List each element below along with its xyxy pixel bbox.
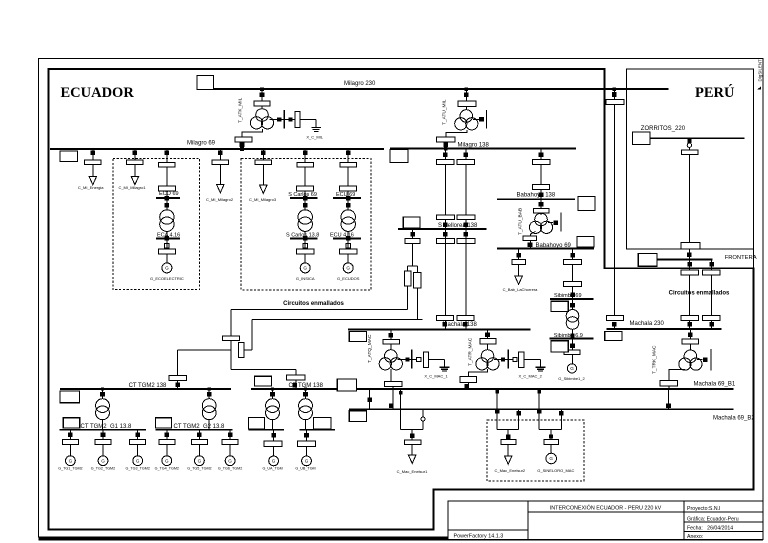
svg-text:Milagro 138: Milagro 138 [458, 142, 490, 148]
wire T_ATQ_MAC hv2 [390, 344, 392, 350]
wire T_TRK_MAC branch [697, 359, 703, 361]
wire T_ATQ_MAC lv [390, 369, 392, 382]
svg-text:G: G [165, 266, 169, 271]
breaker T_ATU_BAB hv [533, 208, 549, 213]
wire Sibimbe tr hv [572, 299, 574, 310]
breaker S Bellorea line 1 a [437, 160, 455, 165]
transformer ECO feeder [160, 210, 174, 224]
svg-text:C_MI_Energia: C_MI_Energia [78, 185, 104, 190]
switch C_MI_Milagro2 [218, 151, 223, 156]
breaker link A [223, 336, 240, 341]
switch G_UA_TGM [271, 433, 276, 438]
svg-text:T_ATK_MIL: T_ATK_MIL [238, 97, 244, 123]
wire G_TG1_TGM2 b [69, 445, 71, 456]
transformer ECU feeder [341, 210, 355, 224]
transformer Sibimbe [566, 310, 579, 323]
switch Sibimbe tr lv [571, 334, 575, 338]
svg-text:C_Bab_LaChorrera: C_Bab_LaChorrera [503, 287, 538, 292]
wire C_MI_Milagro2 tail [219, 165, 221, 185]
node box CT TGM2 138 [60, 391, 80, 403]
bus Milagro 138 [390, 148, 576, 150]
switch T_TRK_MAC hv [688, 332, 693, 337]
switch S Bellorea line 2 a [464, 153, 469, 158]
wire link A [231, 309, 408, 311]
svg-text:G: G [272, 459, 276, 464]
switch T_ATQ_MAC hv [389, 333, 394, 338]
junction SCarlos feeder minibus2 [303, 236, 308, 241]
title block table [448, 501, 763, 539]
generator G_TG6_TGM2 [225, 456, 235, 466]
wire C_Bab_LaChorrera head [518, 249, 520, 260]
svg-text:T_ATR_MAC: T_ATR_MAC [468, 337, 474, 366]
wire SCarlos feeder gen2 [304, 254, 306, 263]
switch T_ATR_MAC hv [485, 332, 490, 337]
load arrow C_MI_Milagro3 [260, 185, 267, 193]
breaker T_ATU_MIL lv [437, 137, 455, 142]
wire link A branch right [231, 368, 296, 370]
breaker T_ATU_MIL hv [458, 101, 476, 106]
load arrow C_Mac_Enelsur2 [505, 456, 512, 464]
wire G_TG2_TGM2 b [102, 445, 104, 456]
svg-text:X_C_MAC_2: X_C_MAC_2 [519, 374, 543, 379]
breaker S Bellorea line 1 b [436, 215, 454, 220]
switch S Bellorea line 1 c [443, 232, 448, 237]
switch ECU feeder [346, 151, 351, 156]
wire C_Mac_Enelsur2 tie [497, 429, 519, 431]
breaker C_MI_Milagro3 [255, 160, 271, 165]
breaker C_Bab_LaChorrera [512, 260, 525, 265]
wire C_Mac_Enelsur1 down [411, 430, 413, 440]
wire ECU feeder head [347, 149, 349, 162]
wire T_ATU_MIL lv [446, 130, 467, 149]
svg-text:G_TG1_TGM2: G_TG1_TGM2 [58, 467, 82, 471]
generator G_INSICA [300, 263, 310, 273]
generator G_UB_TGM [302, 456, 312, 466]
node box UA [249, 417, 265, 429]
breaker G_SINELORO [544, 440, 558, 445]
breaker T_ATK_MIL hv [254, 101, 270, 106]
switch G_SINELORO left top [537, 390, 541, 394]
switch frontera line 2 b [709, 322, 714, 327]
svg-text:G: G [228, 458, 232, 463]
wire S Bellorea line 2 long [465, 229, 467, 316]
junction T_ATK_MIL lv [240, 147, 244, 151]
wire ECU feeder gen1 [347, 238, 349, 249]
wire C_MI_Energia tail [92, 165, 94, 177]
breaker G_TG6_TGM2 [222, 440, 238, 445]
breaker SCarlos feeder [297, 162, 314, 167]
junction TR CT TGM a [271, 387, 274, 390]
breaker G_TG4_TGM2 [159, 440, 175, 445]
wire X_C_MIL branch [270, 119, 296, 121]
wire CT TGM drop [295, 369, 297, 389]
wire C_Mac_Enelsur2 tail [507, 445, 509, 457]
right boundary joint [752, 249, 754, 268]
svg-text:G: G [101, 458, 105, 463]
wire Sibimbe line c [572, 287, 574, 299]
node box UB [313, 417, 331, 429]
svg-text:X_C_MIL: X_C_MIL [306, 135, 323, 140]
wire G_SINELORO tail [550, 445, 552, 454]
bus S Bellorea 138 [398, 228, 487, 230]
wire T_ATU_BAB branch [548, 222, 553, 224]
switch Zorritos tail [687, 252, 692, 257]
wire TR CT TGM2 b lv [208, 420, 210, 430]
wire tie vertical [613, 105, 615, 316]
wire T_ATU_MIL branch [473, 118, 479, 120]
wire C_MI_Milagro1 tail [134, 165, 136, 177]
svg-text:PERÚ: PERÚ [695, 84, 735, 101]
bus Sibimbe 69 [550, 298, 594, 300]
svg-text:C_Mac_Enelsur2: C_Mac_Enelsur2 [494, 468, 525, 473]
node box ZORRITOS [633, 132, 651, 145]
breaker ECU feeder gen [340, 249, 357, 254]
generator G_ECUDOS [343, 263, 353, 273]
bus Babahoyo 138 [497, 198, 575, 200]
wire G_SINELORO right [560, 409, 562, 429]
junction ECU feeder minibus [346, 196, 351, 201]
switch C_Mac_Enelsur2 right [517, 411, 521, 415]
svg-text:G: G [549, 456, 553, 461]
wire TR CT TGM b lv [305, 420, 307, 430]
wire ECO feeder tr lv [166, 231, 168, 238]
svg-text:Proyecto:S.N.I: Proyecto:S.N.I [687, 506, 720, 512]
switch G_UB_TGM [304, 433, 309, 438]
wire TR CT TGM2 b hv [208, 389, 210, 399]
switch frontera line 2 a [709, 262, 714, 267]
breaker ECU feeder b [340, 186, 357, 191]
wire link B [252, 319, 423, 321]
breaker Sibimbe gen [564, 350, 580, 355]
wire Sibimbe gen a [572, 339, 574, 350]
wire G_UB_TGM b [306, 447, 308, 456]
capacitor X_C_MIL [295, 111, 300, 127]
svg-text:G_UA_TGM: G_UA_TGM [262, 467, 282, 471]
junction SCarlos feeder minibus [303, 196, 308, 201]
breaker CT TGM drop [286, 375, 305, 380]
wire link B down [251, 320, 253, 351]
wire X_C_MAC_2 branch [494, 358, 513, 360]
switch Sibimbe tr hv [570, 303, 575, 308]
wire G_TG3_TGM2 b [137, 445, 139, 456]
wire ECO feeder tr [166, 198, 168, 210]
wire S Bellorea line 2 top [465, 149, 467, 160]
switch Zorritos head [687, 139, 691, 143]
series capacitor link [239, 342, 244, 357]
wire X_C_MAC_2 gnd [524, 358, 541, 360]
wire T_ATR_MAC hv [487, 330, 489, 339]
wire C_Bab_LaChorrera tail [518, 265, 520, 277]
wire Sibimbe tr lv [572, 329, 574, 339]
wire T_TRK_MAC lv [669, 370, 685, 381]
svg-text:G: G [165, 458, 169, 463]
svg-text:Babahoyo 138: Babahoyo 138 [517, 192, 556, 198]
svg-text:Milagro 230: Milagro 230 [344, 81, 376, 87]
junction T_ATK_MIL [260, 87, 264, 91]
wire T_ATQ_MAC hv [390, 330, 392, 340]
transformer T_ATK_MIL [256, 109, 269, 122]
wire CT TGM2 drop [177, 350, 179, 389]
svg-text:DIgSILENT: DIgSILENT [758, 59, 763, 82]
breaker tick X_C_MAC_1 [411, 349, 413, 368]
switch open SCarlos feeder [303, 244, 307, 248]
wire ECU feeder tr [347, 198, 349, 210]
switch tie lower [612, 322, 617, 327]
bus Milagro 69 [50, 148, 384, 150]
breaker tick T_ATU_BAB [560, 213, 562, 232]
switch TR CT TGM2 b [207, 392, 212, 397]
bus Machala 230 [607, 328, 722, 330]
switch ECU feeder below minibus [346, 203, 351, 208]
generator G_TG5_TGM2 [195, 456, 205, 466]
breaker S Bellorea line 1 d [436, 316, 453, 321]
switch open ECO feeder [165, 244, 169, 248]
svg-text:CT TGM2_G1 13.8: CT TGM2_G1 13.8 [81, 424, 132, 430]
svg-text:G: G [303, 266, 307, 271]
svg-text:G_Sibimbe1_2: G_Sibimbe1_2 [558, 376, 585, 381]
wire Zorritos head2 [688, 147, 690, 150]
svg-text:PowerFactory 14.1.3: PowerFactory 14.1.3 [454, 534, 504, 540]
switch TR CT TGM b [303, 392, 308, 397]
wire ECO feeder down [166, 167, 168, 186]
svg-text:G: G [305, 459, 309, 464]
breaker S Bellorea line 2 b [457, 215, 475, 220]
svg-text:Sibimbe 69: Sibimbe 69 [554, 293, 582, 299]
load arrow C_Bab_LaChorrera [515, 276, 522, 284]
generator G_SINELORO_MAC [546, 453, 557, 464]
wire SCarlos feeder head [304, 149, 306, 162]
breaker Babahoyo line b [533, 185, 550, 190]
svg-text:C_MI_Milagro2: C_MI_Milagro2 [206, 197, 234, 202]
ground X_C_MAC_1 [440, 366, 450, 368]
switch C_Mac_Enelsur1 left [399, 391, 403, 395]
wire frontera line 1 long [689, 275, 691, 316]
breaker Zorritos b [681, 242, 700, 249]
svg-text:G: G [69, 458, 73, 463]
switch T_TRK_MAC branch [703, 357, 708, 362]
wire T_ATK_MIL hv2 [261, 106, 263, 109]
wire B1-B2 link left [369, 389, 371, 409]
wire T_ATK_MIL hv [261, 89, 263, 101]
switch T_ATK_MIL hv [260, 92, 265, 97]
load arrow C_MI_Milagro1 [131, 177, 138, 185]
bus Babahoyo 69 [497, 248, 594, 250]
title block divider h under title [528, 511, 763, 513]
wire X_C_MIL to ground [300, 119, 316, 121]
wire reactor2 down [416, 288, 418, 320]
switch G_TG6_TGM2 [228, 432, 233, 437]
breaker ECO feeder gen [158, 249, 175, 254]
svg-text:FRONTERA: FRONTERA [725, 255, 757, 261]
wire T_TRK_MAC hv2 [689, 344, 691, 350]
node box CT TGM 138 [255, 376, 272, 386]
wire ECU feeder tr lv [347, 231, 349, 238]
svg-text:T_TRK_MAC: T_TRK_MAC [652, 345, 658, 374]
wire ECO feeder head [166, 149, 168, 162]
svg-text:C_Mac_Enelsur1: C_Mac_Enelsur1 [397, 469, 428, 474]
wire Sibimbe line a [572, 249, 574, 260]
node box Sibimbe 6.9 [551, 341, 568, 352]
bus S Carlos 13.8 [290, 237, 318, 239]
generator G_TG1_TGM2 [66, 456, 76, 466]
svg-text:G: G [198, 458, 202, 463]
node box Machala 69_B2 [349, 411, 366, 422]
wire C_Mac_Enelsur2 down [507, 430, 509, 440]
generator G_TG2_TGM2 [98, 456, 108, 466]
wire SCarlos feeder down [304, 167, 306, 186]
junction TR CT TGM b [304, 387, 307, 390]
wire link A branch left [178, 349, 231, 351]
switch G_SINELORO [549, 434, 553, 438]
svg-text:G_UB_TGM: G_UB_TGM [295, 467, 315, 471]
switch C_MI_Milagro1 [133, 151, 138, 156]
switch B1-B2 link left [368, 397, 373, 402]
transformer T_ATU_BAB [535, 213, 548, 226]
node box Babahoyo 138 [578, 197, 595, 211]
bus Sibimbe 6.9 [550, 338, 594, 340]
breaker T_ATR_MAC lv [460, 376, 477, 382]
svg-text:ZORRITOS_220: ZORRITOS_220 [641, 126, 686, 132]
wire Babahoyo line top [540, 149, 542, 160]
wire G_UB_TGM a [306, 430, 308, 441]
switch Sibimbe line [570, 253, 575, 258]
bus Machala 138 [348, 329, 531, 331]
switch CT TGM drop [293, 383, 298, 388]
node box Machala 69_B1 [337, 379, 356, 391]
wire T_ATU_BAB hv [540, 199, 542, 208]
svg-text:Machala 69_B2: Machala 69_B2 [713, 415, 755, 421]
breaker T_ATK_MIL lv [235, 137, 252, 142]
wire S Bellorea line 1 long [444, 229, 446, 316]
junction tie [613, 87, 617, 91]
switch C_Mac_Enelsur1 [410, 434, 415, 439]
wire S Bellorea line 1 mid [444, 164, 446, 215]
wire T_ATK_MIL lv [242, 129, 263, 149]
wire TR CT TGM2 a lv [102, 420, 104, 430]
wire link A down [230, 310, 232, 370]
node box FRONTERA [638, 254, 657, 267]
wire ECU feeder down2 [347, 191, 349, 198]
bus CT TGM2_G2 13.8 [156, 429, 233, 431]
breaker CT TGM2 drop [169, 376, 187, 381]
transformer TR CT TGM b [299, 399, 313, 413]
wire S Bellorea line 1 top [444, 149, 446, 160]
switch S Bellorea line 1 a [443, 153, 448, 158]
junction TR CT TGM2 b [208, 387, 211, 390]
wire SCarlos feeder gen1 [304, 238, 306, 249]
wire frontera line 1 a [689, 259, 691, 270]
breaker tick T_TRK_MAC [710, 349, 712, 370]
switch X_C_MAC_1 [406, 358, 410, 362]
breaker T_ATQ_MAC hv [383, 339, 400, 343]
wire G_SINELORO down [550, 430, 552, 440]
wire T_ATU_BAB lv [531, 232, 536, 236]
svg-text:ECU 69: ECU 69 [336, 192, 355, 198]
breaker SCarlos feeder gen [297, 249, 314, 254]
generator G_TG3_TGM2 [133, 456, 143, 466]
svg-text:G_INSICA: G_INSICA [296, 276, 315, 281]
transformer TR CT TGM2 b [202, 399, 216, 413]
bus Machala 69_B1 [337, 388, 733, 390]
switch Babahoyo line b [539, 193, 544, 198]
wire X_C_MAC_1 branch [398, 358, 417, 360]
breaker T_ATQ_MAC lv [385, 382, 402, 387]
switch T_ATU_BAB lv [528, 243, 533, 248]
svg-text:G_TG6_TGM2: G_TG6_TGM2 [218, 467, 242, 471]
wire C_MI_Milagro3 tail [262, 165, 264, 186]
node box Sibimbe 69 [551, 301, 568, 311]
node box S Bellorea [403, 217, 420, 228]
bus CT TGM 138 [251, 388, 339, 390]
generator G_Sibimbe1_2 [567, 364, 576, 373]
switch TR CT TGM a [270, 392, 275, 397]
wire T_ATU_MIL hv2 [465, 106, 467, 110]
switch frontera line 1 b [687, 322, 692, 327]
breaker S Bellorea line 2 c [457, 239, 475, 244]
breaker Zorritos a [681, 150, 698, 154]
switch G_TG1_TGM2 [68, 432, 73, 437]
switch T_ATU_MIL lv [444, 142, 449, 147]
wire C_MI_Milagro1 head [134, 149, 136, 160]
reactor 2 [414, 273, 421, 289]
breaker G_TG2_TGM2 [95, 440, 111, 445]
load arrow C_MI_Milagro2 [217, 185, 224, 193]
node box Milagro 69 [60, 151, 78, 161]
switch SCarlos feeder [303, 151, 308, 156]
wire G_TG6_TGM2 a [229, 430, 231, 440]
breaker G_TG3_TGM2 [130, 440, 146, 445]
svg-text:G_ECUDOS: G_ECUDOS [337, 276, 360, 281]
junction T_ATU_MIL [465, 87, 469, 91]
wire T_TRK_MAC join [668, 386, 670, 389]
switch Babahoyo line a [539, 153, 544, 158]
wire S Bellorea line 1 join2 [444, 320, 446, 329]
wire TR CT TGM2 a hv [102, 389, 104, 399]
switch Sibimbe line c [570, 293, 575, 298]
bus Machala 69_B2 [349, 408, 733, 410]
switch C_Mac_Enelsur2 left top [495, 390, 499, 394]
switch S Bellorea line 1 b [443, 222, 448, 227]
wire SBellorea reactor head [412, 229, 414, 239]
breaker C_MI_Milagro1 [127, 160, 143, 165]
svg-text:C_MI_Milagro1: C_MI_Milagro1 [118, 185, 146, 190]
breaker Babahoyo line a [532, 160, 550, 165]
switch frontera line 1 a [687, 262, 692, 267]
breaker Sibimbe line b [564, 282, 582, 287]
transformer T_ATU_MIL [460, 110, 473, 123]
breaker C_Mac_Enelsur2 [501, 440, 516, 445]
switch C_Mac_Enelsur2 [506, 434, 511, 439]
svg-text:G: G [136, 458, 140, 463]
wire G_TG2_TGM2 a [102, 430, 104, 440]
bus CT TGM2 138 [60, 388, 231, 390]
switch ECO feeder below minibus [165, 203, 170, 208]
dashed area box 1 [113, 159, 200, 290]
breaker C_MI_Milagro2 [212, 160, 229, 165]
wire Babahoyo line join [540, 189, 542, 199]
svg-text:INTERCONEXIÓN ECUADOR - PERU 2: INTERCONEXIÓN ECUADOR - PERU 220 kV [550, 504, 662, 511]
switch SBellorea reactor [410, 232, 415, 237]
breaker G_TG1_TGM2 [62, 440, 78, 445]
bus Milagro 230 [213, 88, 668, 90]
wire frontera line 2 join [711, 321, 713, 330]
wire C_Mac_Enelsur1 left [400, 389, 402, 430]
svg-text:G_SINELORO_MAC: G_SINELORO_MAC [537, 468, 574, 473]
switch S Bellorea line 1 d [443, 322, 448, 327]
generator G_ECOELECTRIC [162, 263, 172, 273]
wire C_MI_Energia head [92, 149, 94, 160]
wire ECO feeder gen1 [166, 238, 168, 249]
